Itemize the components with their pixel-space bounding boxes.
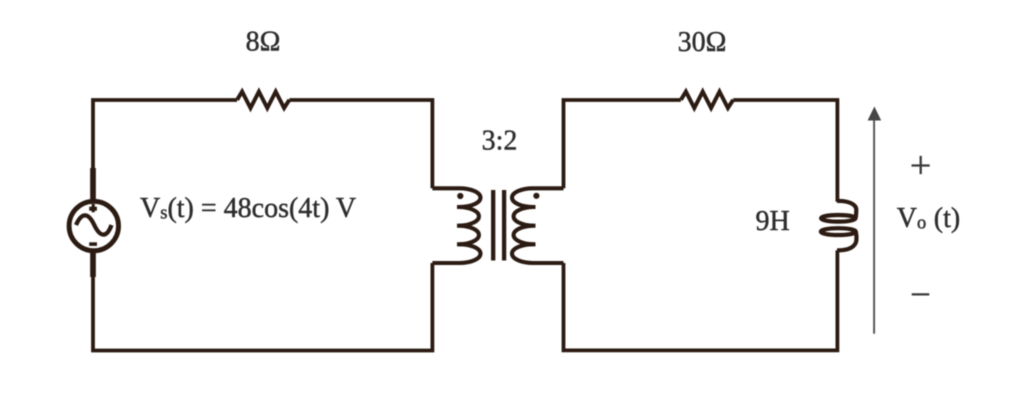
transformer core bar left	[491, 190, 495, 261]
transformer core bar right	[502, 190, 506, 261]
transformer secondary winding cusp ticks	[528, 207, 536, 244]
transformer secondary winding	[512, 188, 564, 263]
svg-text:8Ω: 8Ω	[246, 27, 281, 58]
minus sign for Vo	[912, 293, 930, 295]
resistor 30ohm zigzag	[681, 92, 733, 108]
source stub thick lower	[90, 250, 96, 277]
wire: left loop top-right corner run	[289, 100, 432, 188]
AC source Vs circle	[69, 201, 118, 250]
wire: right loop top-right corner run	[733, 100, 837, 202]
svg-text:9H: 9H	[756, 206, 790, 237]
inductor 9H coil bottom hook	[837, 232, 857, 251]
AC source sine wave	[76, 215, 112, 234]
wire: left loop top-left corner run	[93, 100, 237, 200]
inductor 9H loop 2	[821, 228, 856, 235]
resistor 8ohm zigzag	[237, 92, 289, 108]
transformer primary winding cusp ticks	[457, 207, 465, 244]
wire: right loop bottom run	[564, 250, 838, 350]
source stub thick upper	[90, 168, 96, 202]
transformer primary dot	[457, 193, 463, 199]
svg-text:30Ω: 30Ω	[678, 27, 727, 58]
Vo arrow shaft	[873, 120, 875, 334]
svg-text:3:2: 3:2	[482, 125, 518, 156]
inductor 9H loop 1	[821, 215, 855, 222]
wire: left loop bottom run	[93, 252, 432, 351]
AC source plus sign	[89, 207, 97, 211]
inductor 9H coil top hook	[837, 201, 856, 218]
AC source minus sign	[89, 242, 97, 246]
transformer primary winding	[432, 188, 480, 263]
plus sign for Vo	[912, 156, 930, 174]
Vo arrow head	[868, 107, 882, 121]
wire: right loop top-left corner run	[564, 100, 681, 188]
transformer secondary dot	[533, 193, 539, 199]
svg-text:Vs(t) = 48cos(4t) V: Vs(t) = 48cos(4t) V	[140, 193, 356, 224]
